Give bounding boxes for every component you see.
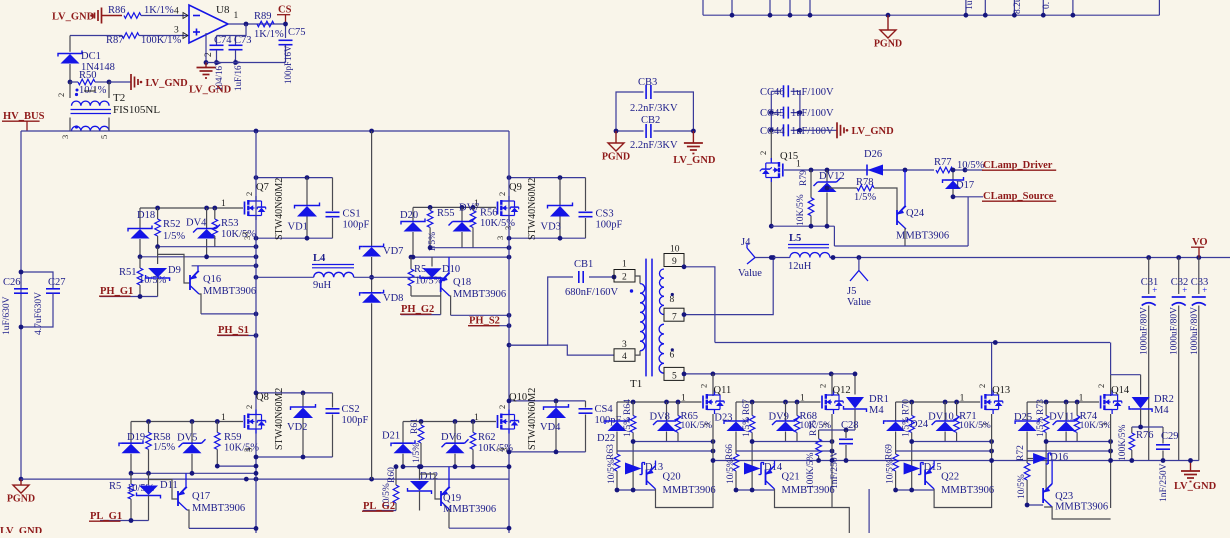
- capacitor CS1: [326, 178, 370, 239]
- svg-text:1/5%: 1/5%: [163, 231, 185, 242]
- diode D9: [146, 247, 181, 297]
- svg-text:Q8: Q8: [256, 392, 269, 403]
- svg-text:10/5%: 10/5%: [726, 459, 736, 484]
- svg-text:10K/5%: 10K/5%: [796, 194, 806, 226]
- wire left leg rail: [255, 131, 257, 533]
- svg-text:1000uF/80V: 1000uF/80V: [1170, 307, 1180, 355]
- wire Q18 collector: [451, 313, 512, 318]
- wire VD2/CS2 box bottom: [254, 455, 333, 460]
- svg-text:CB2: CB2: [641, 115, 660, 126]
- diode DC1: [58, 51, 115, 83]
- svg-text:D19: D19: [127, 432, 145, 443]
- svg-text:DV9: DV9: [769, 412, 789, 423]
- resistor R51: [119, 257, 167, 297]
- capacitor C73: [229, 35, 252, 91]
- net port PL_G2: [362, 501, 396, 512]
- svg-text:2: 2: [699, 384, 709, 388]
- wire Q8 gate: [131, 419, 243, 424]
- svg-text:C27: C27: [48, 277, 66, 288]
- capacitor C28: [830, 420, 859, 489]
- svg-text:680nF/160V: 680nF/160V: [565, 287, 619, 298]
- transistor Q21: [766, 461, 835, 497]
- wire output rail VO: [830, 255, 1230, 260]
- svg-text:D21: D21: [382, 431, 400, 442]
- label T1: [630, 378, 642, 390]
- svg-text:R61: R61: [410, 418, 420, 434]
- resistor R62: [470, 422, 513, 467]
- capacitor C32: [1170, 258, 1189, 461]
- transistor Q18: [441, 257, 506, 315]
- wire mid rail upper: [371, 131, 373, 247]
- wire sync drain bus upper: [715, 340, 1110, 345]
- svg-text:2: 2: [622, 273, 627, 283]
- svg-text:R87: R87: [106, 35, 124, 46]
- svg-text:R73: R73: [1036, 399, 1046, 415]
- capacitor C27: [19, 270, 66, 335]
- svg-text:T2: T2: [113, 92, 125, 104]
- wire Q22 collector: [934, 489, 992, 508]
- transistor Q20: [647, 461, 716, 497]
- diode D24: [884, 402, 929, 451]
- net port HV_BUS: [2, 111, 45, 131]
- svg-text:100K/1%: 100K/1%: [141, 35, 182, 46]
- diode VD8: [360, 277, 404, 479]
- svg-text:3: 3: [495, 236, 505, 240]
- wire Q15 source row: [771, 224, 834, 229]
- svg-text:MMBT3906: MMBT3906: [663, 485, 716, 496]
- transistor Q17: [149, 473, 246, 528]
- diode D10: [420, 257, 460, 281]
- svg-text:R60: R60: [387, 467, 397, 483]
- zener DV6: [441, 422, 469, 467]
- svg-text:2: 2: [244, 405, 254, 409]
- svg-text:D23: D23: [714, 413, 732, 424]
- svg-text:CS4: CS4: [595, 404, 614, 415]
- svg-text:CC44: CC44: [760, 126, 785, 137]
- transformer T2: [56, 82, 160, 139]
- wire top bus (cut off): [703, 0, 1159, 18]
- svg-text:1/5%: 1/5%: [902, 417, 912, 437]
- transistor Q16: [158, 254, 256, 314]
- resistor R59: [215, 422, 260, 467]
- svg-text:4: 4: [174, 7, 179, 17]
- net port PH_G2: [400, 304, 441, 315]
- svg-text:LV_GND: LV_GND: [1174, 481, 1217, 492]
- wire Q17 collector: [189, 526, 258, 531]
- svg-text:1/5%: 1/5%: [854, 192, 876, 203]
- svg-text:PH_S1: PH_S1: [218, 325, 249, 336]
- svg-text:2: 2: [758, 151, 768, 155]
- svg-text:Q24: Q24: [906, 208, 925, 219]
- zener DV8: [650, 402, 681, 442]
- svg-text:7: 7: [672, 313, 677, 323]
- wire Q11 row 441: [631, 439, 716, 444]
- svg-text:VD4: VD4: [540, 422, 561, 433]
- inductor L5: [788, 233, 830, 272]
- wire Q11 row 451: [617, 449, 715, 454]
- diode D22: [597, 402, 629, 451]
- diode VD7: [360, 244, 404, 278]
- transformer T1 secondary winding A: [659, 269, 664, 315]
- wire Q12 row 441: [750, 439, 835, 444]
- svg-text:5: 5: [672, 372, 677, 382]
- resistor R70: [902, 399, 915, 490]
- diode D16: [1027, 452, 1068, 464]
- resistor R60: [382, 464, 399, 510]
- resistor R68: [794, 402, 831, 442]
- svg-text:FIS105NL: FIS105NL: [113, 104, 160, 116]
- svg-text:DV5: DV5: [177, 433, 197, 444]
- svg-text:LV_GND: LV_GND: [52, 12, 95, 23]
- wire Q7 cell row3: [192, 263, 259, 268]
- transformer T1 primary pins: [614, 260, 635, 363]
- wire R87 input: [70, 35, 122, 37]
- wire Q13 row 441: [909, 439, 994, 444]
- svg-text:LV_GND: LV_GND: [852, 126, 895, 137]
- svg-text:LV_GND: LV_GND: [146, 78, 189, 89]
- wire Q8 cell row1: [215, 464, 258, 469]
- resistor R72: [1016, 445, 1030, 505]
- svg-text:3: 3: [240, 232, 250, 236]
- label 0. (rotated, cut): [1042, 2, 1052, 9]
- svg-text:10/1%: 10/1%: [79, 85, 107, 96]
- svg-text:1/5%: 1/5%: [412, 443, 422, 463]
- svg-text:R5: R5: [109, 481, 121, 492]
- svg-text:10K/5%: 10K/5%: [959, 421, 991, 431]
- transformer T1 secondary pins: [664, 245, 684, 382]
- svg-text:5: 5: [99, 135, 109, 139]
- svg-text:R63: R63: [606, 444, 616, 460]
- wire Q22 emitter row: [893, 488, 934, 493]
- svg-text:D11: D11: [160, 480, 178, 491]
- svg-text:MMBT3906: MMBT3906: [453, 289, 506, 300]
- net port PH_S1: [217, 325, 258, 338]
- svg-text:C74: C74: [214, 35, 232, 46]
- svg-text:Q16: Q16: [203, 274, 221, 285]
- resistor R57: [109, 473, 155, 520]
- svg-text:R53: R53: [221, 218, 239, 229]
- wire Q9 gate: [413, 205, 496, 210]
- wire Q7 cell row1: [155, 244, 258, 249]
- wire Q11 source col: [711, 414, 716, 508]
- svg-text:L5: L5: [789, 233, 801, 244]
- svg-text:Q10: Q10: [509, 392, 527, 403]
- wire Q12 row 451: [736, 449, 834, 454]
- wire Q11 gate row: [617, 400, 702, 405]
- svg-text:HV_BUS: HV_BUS: [3, 111, 45, 122]
- ground LV_GND (right of CC44): [800, 122, 894, 138]
- svg-text:PH_G2: PH_G2: [401, 304, 434, 315]
- svg-text:Q21: Q21: [782, 472, 800, 483]
- net label LV_GND (cut bottom left): [0, 526, 43, 537]
- wire Q12 source col: [830, 414, 835, 508]
- diode D18: [128, 208, 155, 257]
- svg-text:1K/1%: 1K/1%: [254, 29, 284, 40]
- svg-text:PL_G1: PL_G1: [90, 511, 122, 522]
- svg-text:10/5%: 10/5%: [415, 276, 443, 287]
- wire phase PH_S1 node: [254, 275, 374, 280]
- svg-text:Q18: Q18: [453, 277, 471, 288]
- svg-text:PGND: PGND: [602, 152, 630, 163]
- svg-text:R75: R75: [809, 420, 819, 436]
- resistor R69: [885, 444, 899, 490]
- transistor Q19: [420, 467, 497, 529]
- zener DV4: [186, 208, 220, 257]
- svg-text:C73: C73: [234, 35, 252, 46]
- wire VD4/CS4 box top: [507, 399, 586, 404]
- resistor R50: [68, 70, 112, 96]
- wire Q13 row 451: [896, 449, 994, 454]
- resistor R61: [410, 418, 424, 467]
- diode DR2: [1129, 375, 1174, 427]
- diode D25: [1014, 402, 1039, 451]
- zener DV10: [928, 402, 959, 442]
- ground PGND (top): [874, 15, 902, 49]
- zener DV9: [769, 402, 800, 442]
- wire Q11 drain: [712, 374, 714, 396]
- diode D15: [904, 462, 942, 475]
- svg-text:8.2u: 8.2u: [1013, 0, 1023, 14]
- transistor Q8: [221, 388, 285, 452]
- capacitor CB1: [565, 259, 619, 298]
- zener DV12: [814, 170, 845, 226]
- connector J4: [738, 237, 762, 279]
- svg-text:1000uF/80V: 1000uF/80V: [1190, 307, 1200, 355]
- wire Q9 cell row2: [409, 255, 512, 260]
- net port CLamp_Driver: [965, 160, 1056, 171]
- wire Q14 source col: [1108, 414, 1113, 508]
- svg-text:1uF/630V: 1uF/630V: [2, 296, 12, 335]
- svg-text:D26: D26: [864, 149, 882, 160]
- wire left rail: [20, 131, 22, 479]
- transistor Q24: [896, 170, 949, 246]
- svg-text:R79: R79: [799, 170, 809, 186]
- wire T1 pin9 to drain bus: [682, 264, 715, 342]
- svg-text:100pF: 100pF: [343, 220, 370, 231]
- svg-text:1K/1%: 1K/1%: [144, 5, 174, 16]
- wire Q7 cell row2: [138, 254, 259, 259]
- resistor R67: [742, 399, 755, 490]
- diode D12: [408, 464, 439, 510]
- svg-text:VD2: VD2: [287, 422, 307, 433]
- resistor R87: [106, 33, 182, 46]
- svg-text:DV11: DV11: [1049, 412, 1074, 423]
- svg-text:1uF/100V: 1uF/100V: [791, 126, 834, 137]
- svg-text:DR2: DR2: [1154, 394, 1174, 405]
- svg-text:2: 2: [56, 93, 66, 97]
- svg-text:2: 2: [818, 384, 828, 388]
- wire Q12 gate row: [736, 400, 821, 405]
- transistor Q23: [1043, 461, 1111, 520]
- svg-text:DV10: DV10: [928, 412, 954, 423]
- svg-text:CC46: CC46: [760, 87, 785, 98]
- wire Q10 cell row2: [401, 464, 512, 469]
- diode D17: [943, 168, 975, 197]
- wire Q15 gate row: [784, 168, 934, 173]
- wire VD3/CS3 box bottom: [507, 236, 586, 241]
- zener DV5: [177, 422, 206, 474]
- svg-text:2.2nF/3KV: 2.2nF/3KV: [630, 103, 678, 114]
- svg-text:C75: C75: [288, 27, 306, 38]
- svg-text:R77: R77: [934, 157, 952, 168]
- svg-text:9uH: 9uH: [313, 280, 332, 291]
- net port CLamp_Source: [953, 191, 1056, 202]
- wire Q9 cell row1: [428, 245, 512, 250]
- wire Q24 collector: [834, 194, 968, 246]
- capacitor CC45: [760, 107, 834, 131]
- diode D13: [625, 462, 663, 475]
- svg-text:MMBT3906: MMBT3906: [941, 485, 994, 496]
- capacitor C75: [279, 22, 306, 84]
- wire VD2/CS2 box top: [254, 391, 333, 396]
- resistor R74: [1074, 402, 1111, 442]
- svg-text:100K/5%: 100K/5%: [1118, 425, 1128, 462]
- wire Q12 drain: [831, 374, 833, 396]
- svg-text:DR1: DR1: [869, 394, 889, 405]
- resistor R78: [825, 177, 897, 210]
- capacitor CC46: [760, 85, 834, 112]
- svg-text:R70: R70: [902, 399, 912, 415]
- svg-text:D25: D25: [1014, 412, 1032, 423]
- wire Q19 collector: [449, 526, 511, 531]
- svg-text:R69: R69: [885, 444, 895, 460]
- net port PL_G1: [89, 511, 149, 523]
- svg-text:1/5%: 1/5%: [1036, 417, 1046, 437]
- diode VD1: [288, 178, 320, 239]
- resistor R71: [954, 402, 991, 442]
- resistor R54: [408, 257, 442, 296]
- connector J5: [847, 258, 871, 309]
- svg-text:1: 1: [796, 160, 801, 170]
- wire phase to CB1: [507, 277, 573, 348]
- svg-text:6: 6: [670, 351, 675, 361]
- svg-text:MMBT3906: MMBT3906: [1055, 502, 1108, 513]
- svg-text:M4: M4: [869, 405, 884, 416]
- svg-text:3: 3: [60, 135, 70, 139]
- capacitor C33: [1190, 258, 1209, 461]
- svg-text:+: +: [1182, 285, 1187, 295]
- capacitor CS4: [579, 401, 622, 452]
- capacitor C31: [1140, 258, 1159, 461]
- svg-text:R67: R67: [742, 399, 752, 415]
- wire Q20 emitter row: [615, 488, 656, 493]
- svg-text:R76: R76: [1136, 430, 1154, 441]
- svg-text:PL_G2: PL_G2: [363, 501, 395, 512]
- svg-text:9: 9: [672, 257, 677, 267]
- diode VD2: [287, 393, 316, 457]
- svg-text:D10: D10: [442, 264, 460, 275]
- capacitor CS2: [326, 393, 369, 457]
- svg-text:T1: T1: [630, 378, 642, 390]
- svg-text:100pF: 100pF: [342, 415, 369, 426]
- capacitor CB2: [616, 115, 693, 151]
- svg-text:1/5%: 1/5%: [153, 442, 175, 453]
- wire op-amp bottom rail: [206, 62, 286, 64]
- svg-text:2: 2: [497, 405, 507, 409]
- resistor R77: [934, 157, 985, 173]
- svg-text:R64: R64: [623, 399, 633, 415]
- diode VD3: [541, 178, 573, 239]
- ground LV_GND (bottom right): [1174, 458, 1217, 492]
- svg-text:10K/5%: 10K/5%: [221, 229, 256, 240]
- svg-text:Q12: Q12: [833, 385, 851, 396]
- svg-text:VD3: VD3: [541, 222, 561, 233]
- svg-text:Q22: Q22: [941, 472, 959, 483]
- svg-text:R55: R55: [437, 208, 455, 219]
- capacitor CB3: [616, 77, 693, 131]
- svg-text:3: 3: [244, 448, 254, 452]
- svg-text:STW40N60M2: STW40N60M2: [274, 178, 285, 240]
- transistor Q22: [925, 461, 994, 497]
- svg-text:MMBT3906: MMBT3906: [896, 231, 949, 242]
- svg-text:8: 8: [670, 295, 675, 305]
- svg-text:CB3: CB3: [638, 77, 657, 88]
- svg-text:+: +: [1202, 285, 1207, 295]
- net port VO: [1191, 237, 1208, 258]
- wire VD4/CS4 box bottom: [507, 450, 586, 455]
- resistor R89: [254, 11, 284, 40]
- resistor R66: [725, 444, 739, 490]
- diode DR1: [844, 372, 889, 431]
- wire Q13 source col: [989, 414, 994, 508]
- svg-text:LV_GND: LV_GND: [673, 155, 716, 166]
- svg-text:CS1: CS1: [343, 209, 361, 220]
- wire VD1/CS1 box top: [254, 175, 333, 180]
- wire R87 tap down: [69, 36, 71, 52]
- svg-text:Q23: Q23: [1055, 491, 1073, 502]
- svg-text:1000uF/80V: 1000uF/80V: [1140, 307, 1150, 355]
- transformer T1 primary winding: [630, 276, 645, 355]
- net port PH_G1: [99, 286, 158, 299]
- wire VD3/CS3 box top: [507, 175, 586, 180]
- svg-text:DV4: DV4: [186, 218, 207, 229]
- resistor R64: [623, 399, 636, 490]
- svg-text:STW40N60M2: STW40N60M2: [527, 178, 538, 240]
- svg-text:CS2: CS2: [342, 404, 360, 415]
- wire Q21 emitter row: [734, 488, 775, 493]
- svg-text:D24: D24: [910, 419, 929, 430]
- svg-text:U8: U8: [216, 4, 230, 16]
- wire sync source rail: [713, 460, 1199, 462]
- net port PH_S2: [468, 316, 511, 329]
- resistor R79: [796, 170, 814, 226]
- svg-text:Q13: Q13: [992, 385, 1010, 396]
- svg-text:10K/5%: 10K/5%: [1080, 421, 1112, 431]
- svg-text:10: 10: [670, 245, 680, 255]
- svg-text:C26: C26: [3, 277, 21, 288]
- wire Q16 collector: [201, 312, 258, 317]
- svg-text:PH_G1: PH_G1: [100, 286, 133, 297]
- svg-text:1uF/100V: 1uF/100V: [791, 87, 834, 98]
- transistor Q12: [800, 384, 851, 427]
- transformer T1 secondary winding B: [659, 324, 664, 373]
- svg-text:2: 2: [1096, 384, 1106, 388]
- resistor R73: [1036, 399, 1049, 490]
- svg-text:2.2nF/3KV: 2.2nF/3KV: [630, 140, 678, 151]
- svg-text:100pF: 100pF: [596, 220, 623, 231]
- svg-text:PGND: PGND: [7, 494, 35, 505]
- svg-text:R62: R62: [478, 432, 496, 443]
- svg-text:R52: R52: [163, 219, 181, 230]
- net port CS: [277, 5, 292, 25]
- wire Q10 gate: [403, 419, 496, 424]
- wire T1 pin3 feed: [509, 345, 614, 355]
- resistor R86: [108, 5, 174, 18]
- svg-text:VO: VO: [1192, 237, 1208, 248]
- svg-text:1/5%: 1/5%: [742, 417, 752, 437]
- resistor R75: [806, 420, 821, 489]
- svg-text:D18: D18: [137, 210, 155, 221]
